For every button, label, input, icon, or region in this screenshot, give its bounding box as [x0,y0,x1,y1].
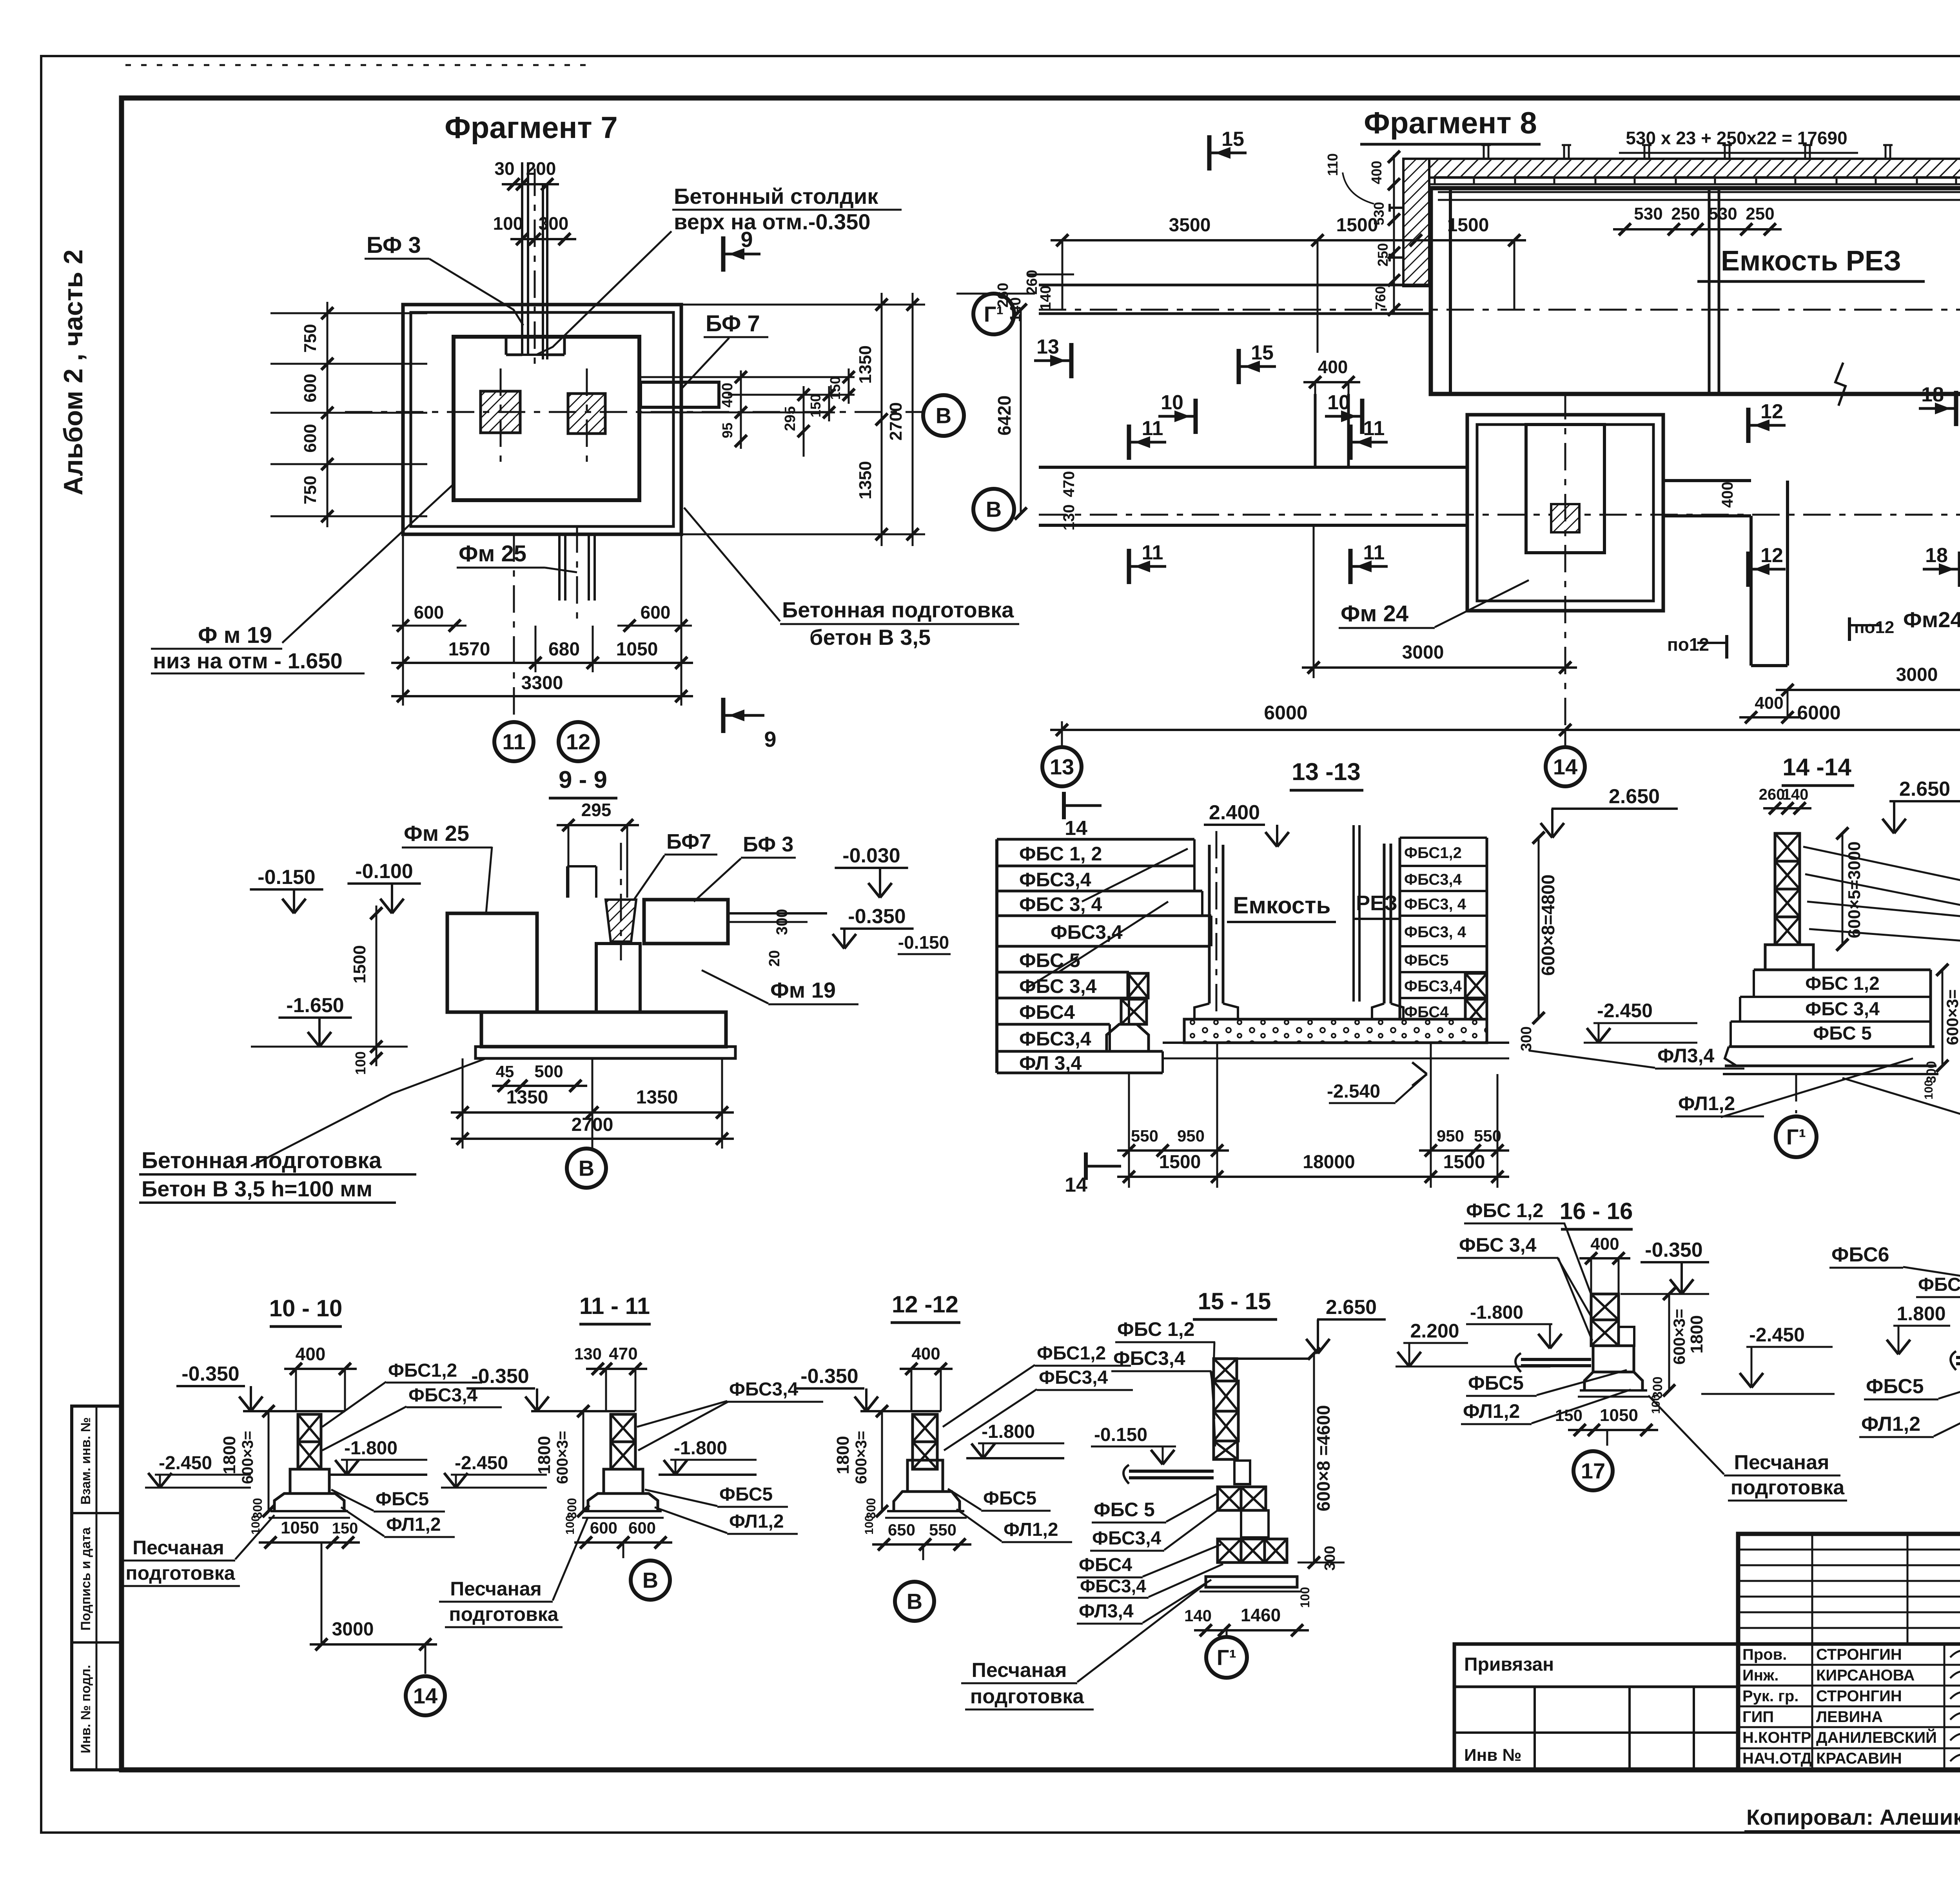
svg-text:250: 250 [1375,243,1391,267]
svg-text:ФБС3, 4: ФБС3, 4 [1404,896,1466,913]
svg-text:ФБС 1,2: ФБС 1,2 [1805,973,1880,994]
fragment 7 column axes vertical [500,368,502,463]
section 9-9 centerline via beam [620,843,622,960]
svg-text:110: 110 [1325,153,1341,176]
fragment 8 channel plates [1435,177,1474,184]
section 10-10 dim 3000 [310,1643,437,1646]
section 15-15 axis bubble G1 [1226,1630,1228,1635]
svg-text:140: 140 [1038,285,1054,310]
svg-text:-0.030: -0.030 [842,844,900,867]
svg-text:400: 400 [1590,1234,1619,1254]
svg-text:Копировал: Алешикова: Копировал: Алешикова [1746,1805,1960,1829]
fragment 7 axis B horizontal centerline [345,411,925,413]
svg-text:650: 650 [888,1521,915,1539]
svg-text:-0.150: -0.150 [898,932,949,953]
svg-text:-2.450: -2.450 [455,1453,508,1474]
section 13-13 right tank wall [1383,844,1386,1004]
svg-text:ФБС 1,2: ФБС 1,2 [1466,1200,1543,1221]
section 9-9 dim 45/500 [492,1085,587,1087]
section 9-9 axis bubble V [592,1139,593,1147]
fragment 8 dim 3000 left [1302,666,1577,669]
fragment 8 left footing strip [1039,466,1467,469]
svg-text:ФБС3,4: ФБС3,4 [1404,871,1462,888]
section 10-10 axis bubble 14 [425,1644,426,1674]
svg-text:400: 400 [1755,693,1783,713]
section 9-9 dim 295 [557,824,639,826]
svg-text:ФБС3,4: ФБС3,4 [1918,1274,1960,1295]
section 9-9 base strip [475,1047,735,1058]
svg-text:95: 95 [719,423,735,438]
svg-text:бетон В 3,5: бетон В 3,5 [809,625,931,650]
svg-text:11 - 11: 11 - 11 [579,1293,650,1319]
svg-text:600×3=: 600×3= [853,1431,870,1484]
section 13-13 dims 950 550 right [1419,1149,1509,1152]
svg-text:ФБС 5: ФБС 5 [1094,1499,1155,1521]
svg-text:750: 750 [301,324,320,352]
fragment 8 left wall band [1039,284,1430,287]
svg-text:550: 550 [929,1521,956,1539]
svg-text:по12: по12 [1667,634,1709,655]
section 16-16 dim 400 [1579,1257,1630,1259]
svg-text:-0.100: -0.100 [355,860,413,883]
fragment 8 axis V centerline [1039,514,1960,516]
svg-text:Емкость РЕЗ: Емкость РЕЗ [1721,245,1901,277]
svg-text:ФБС3,4: ФБС3,4 [1051,921,1123,943]
title block privyazan box [1454,1644,1738,1770]
svg-text:3000: 3000 [332,1619,374,1640]
svg-text:18: 18 [1921,383,1944,406]
svg-text:1500: 1500 [1336,215,1378,236]
svg-text:Г¹: Г¹ [1217,1645,1236,1670]
svg-text:150: 150 [827,376,843,400]
svg-text:250: 250 [1746,204,1774,223]
svg-text:-0.350: -0.350 [848,905,906,928]
svg-text:550: 550 [1131,1127,1158,1145]
svg-text:1460: 1460 [1241,1605,1281,1625]
section 11-11 dim 600x3 rotated [583,1411,584,1511]
section 13-13 partition wall [1352,825,1355,1002]
svg-text:ФБС3,4: ФБС3,4 [1080,1576,1146,1596]
svg-text:600×3=: 600×3= [239,1431,256,1484]
svg-text:530: 530 [1708,204,1737,223]
svg-text:ФБС 3,4: ФБС 3,4 [1459,1234,1537,1256]
svg-text:500: 500 [534,1062,563,1081]
svg-text:ФБС 5: ФБС 5 [1813,1023,1872,1044]
svg-text:ФБС6: ФБС6 [1831,1243,1889,1266]
fragment 7 left dim chain 750/600/600/750 [327,302,328,527]
svg-text:300: 300 [1322,1546,1338,1570]
fragment 8 tank outline [1431,188,1960,394]
section 13-13 right block stack [1399,838,1401,1024]
svg-text:Фрагмент 7: Фрагмент 7 [445,110,618,145]
section 15-15 dims 140 1460 [1194,1629,1309,1631]
section 14-14 footing base [1725,1047,1737,1066]
svg-text:ФБС 1,2: ФБС 1,2 [1117,1318,1194,1340]
fragment 8 axis 14 vertical centerline [1564,392,1566,745]
svg-text:16 - 16: 16 - 16 [1560,1198,1633,1224]
section 13-13 dims 1500 18000 1500 [1117,1176,1509,1178]
fragment 8 connector strip right of FM24 no.1 [1663,479,1751,482]
svg-text:14: 14 [1065,817,1087,840]
svg-text:2700: 2700 [572,1114,613,1135]
section 13-13 flag 14 bottom [1084,1152,1088,1180]
svg-text:ФБС3,4: ФБС3,4 [1404,978,1462,995]
fragment 8 plate anchors [1483,145,1485,159]
svg-text:БФ 3: БФ 3 [743,833,793,856]
title block outer [1738,1534,1960,1770]
fragment 8 bottom dim line 6000 6000 6000x2 [1050,729,1960,731]
svg-text:100: 100 [352,1051,368,1075]
svg-text:15: 15 [1221,128,1244,151]
svg-text:600×8=4800: 600×8=4800 [1538,875,1558,976]
section 15-15 floor slab left [1129,1470,1214,1473]
svg-text:3500: 3500 [1169,215,1211,236]
section 10-10 dim 400 [284,1368,357,1370]
fragment 7 dim 6420 vertical [1020,310,1022,514]
svg-text:100: 100 [493,213,523,234]
svg-text:БФ 7: БФ 7 [706,311,760,336]
section 14-14 dims 260 140 [1763,807,1811,809]
section 12-12 rot dim 1800 [881,1411,883,1511]
svg-text:300: 300 [539,213,569,234]
svg-text:ФЛ1,2: ФЛ1,2 [729,1511,784,1532]
svg-text:295: 295 [581,800,612,820]
svg-text:Инж.: Инж. [1742,1667,1779,1684]
svg-text:по12: по12 [1854,618,1894,637]
section 13-13 left block stack [995,839,998,1073]
svg-text:13: 13 [1036,336,1059,358]
svg-text:ФЛ1,2: ФЛ1,2 [1861,1413,1920,1435]
svg-text:1.800: 1.800 [1896,1303,1945,1325]
svg-text:18000: 18000 [1303,1152,1355,1172]
svg-text:600: 600 [628,1519,656,1537]
svg-text:10 - 10: 10 - 10 [269,1295,343,1321]
svg-text:100: 100 [863,1515,876,1535]
svg-text:1500: 1500 [350,945,369,984]
svg-text:400: 400 [296,1344,326,1364]
fragment 7 dim 30/200 top [502,183,559,185]
svg-text:подготовка: подготовка [1731,1476,1845,1499]
svg-text:Песчаная: Песчаная [450,1578,542,1600]
section 10-10 dim 600x3=1800 rotated [268,1411,270,1511]
fragment 8 left corner hatched detail [1403,159,1429,286]
section 11-11 axis bubble V [622,1543,624,1558]
svg-text:530 x 23 + 250x22 = 17690: 530 x 23 + 250x22 = 17690 [1626,128,1847,148]
section 14-14 intermediate block [1765,945,1813,970]
svg-text:ФБС4: ФБС4 [1019,1001,1075,1023]
svg-text:верх на отм.-0.350: верх на отм.-0.350 [674,209,871,234]
svg-text:140: 140 [1007,297,1024,322]
svg-text:130: 130 [574,1345,602,1363]
svg-text:600×8 =4600: 600×8 =4600 [1313,1405,1334,1511]
fragment 7 BF7 stub right [641,382,719,407]
svg-text:680: 680 [548,639,580,660]
svg-text:ФБС1,2: ФБС1,2 [1404,844,1462,862]
svg-text:470: 470 [1060,471,1078,497]
svg-text:низ на отм - 1.650: низ на отм - 1.650 [153,648,343,673]
svg-text:-1.800: -1.800 [1470,1302,1523,1323]
left margin stamp column [72,1406,122,1770]
svg-text:1050: 1050 [616,639,658,660]
svg-text:200: 200 [526,158,556,179]
svg-text:подготовка: подготовка [970,1685,1084,1708]
svg-text:ФЛ3,4: ФЛ3,4 [1657,1045,1715,1067]
svg-text:100: 100 [1922,1080,1935,1100]
section 11-11 dims 130 470 [586,1368,647,1370]
svg-text:2.200: 2.200 [1410,1320,1459,1342]
section 15-15 X row 2 [1218,1539,1241,1562]
fragment 7 riser notch in FM19 [505,337,508,355]
svg-text:ФБС1,2: ФБС1,2 [1037,1343,1106,1364]
svg-text:150: 150 [332,1520,358,1537]
svg-text:Бетонный столдик: Бетонный столдик [674,184,878,209]
section 12-12 pedestal and footing [907,1460,943,1492]
svg-text:12: 12 [566,730,590,754]
svg-text:ФБС 3,4: ФБС 3,4 [1805,999,1880,1020]
section 13-13 tank left wall [1208,845,1211,1004]
fragment 8 break marks on tank bottom [1835,363,1846,406]
section 15-15 dim 600x8 rotated [1313,1354,1315,1562]
section 15-15 base slab [1206,1577,1297,1587]
fragment 8 top hatched strip [1411,159,1960,178]
fragment 8 corner rotated dims [1393,155,1395,314]
svg-text:-0.150: -0.150 [258,866,315,889]
svg-text:ФЛ1,2: ФЛ1,2 [1463,1400,1520,1422]
section 14-14 lower stack [1754,969,1931,971]
svg-text:3300: 3300 [521,673,563,693]
svg-text:ФБС3,4: ФБС3,4 [729,1379,799,1400]
fragment 8 axis G1 centerline [1039,309,1960,311]
svg-text:600: 600 [590,1519,617,1537]
svg-text:400: 400 [1368,161,1385,184]
svg-text:-0.350: -0.350 [800,1365,858,1388]
svg-text:1800: 1800 [535,1436,554,1474]
svg-text:Фм 19: Фм 19 [770,978,836,1002]
svg-text:13 -13: 13 -13 [1292,759,1361,786]
svg-text:530: 530 [1634,204,1662,223]
svg-text:150: 150 [1555,1406,1583,1425]
scan noise dotted line top [125,64,596,66]
svg-text:2700: 2700 [886,402,906,441]
svg-text:ФБС3,4: ФБС3,4 [1039,1367,1108,1388]
fragment 8 FM24 no.1 column hatched [1551,504,1579,532]
svg-text:БФ 3: БФ 3 [367,232,421,258]
svg-text:ФЛ 3,4: ФЛ 3,4 [1019,1052,1082,1074]
svg-text:ФБС3,4: ФБС3,4 [1113,1347,1185,1369]
svg-text:17: 17 [1581,1459,1605,1483]
svg-text:2.650: 2.650 [1899,778,1950,800]
svg-text:Фрагмент 8: Фрагмент 8 [1364,105,1537,140]
fragment 8 dim 400 at stub [1303,381,1360,383]
svg-text:КРАСАВИН: КРАСАВИН [1816,1750,1902,1767]
svg-text:Фм 24: Фм 24 [1341,601,1408,626]
svg-text:Г¹: Г¹ [1786,1125,1806,1149]
svg-text:14 -14: 14 -14 [1782,754,1851,781]
svg-text:400: 400 [1318,357,1348,377]
section 17-17 floor slab [1956,1356,1960,1359]
svg-text:1500: 1500 [1443,1152,1485,1172]
svg-text:2.650: 2.650 [1609,785,1660,808]
svg-text:-2.450: -2.450 [1749,1324,1805,1346]
svg-text:Рук. гр.: Рук. гр. [1742,1688,1798,1705]
fragment 8 left dim chain 3500/1500/1500 [1051,239,1526,241]
svg-text:600: 600 [641,602,671,622]
svg-text:ФБС 1, 2: ФБС 1, 2 [1019,843,1102,865]
svg-text:ФЛ1,2: ФЛ1,2 [1004,1519,1058,1540]
svg-text:250: 250 [1671,204,1700,223]
section 9-9 FM25 block [447,913,537,1012]
svg-text:1500: 1500 [1159,1152,1201,1172]
section 10-10 pedestal and footing [290,1469,329,1494]
svg-text:6000: 6000 [1264,702,1307,724]
svg-text:ЛЕВИНА: ЛЕВИНА [1816,1708,1883,1726]
section 16-16 axis bubble 17 [1606,1430,1608,1446]
svg-text:ДАНИЛЕВСКИЙ: ДАНИЛЕВСКИЙ [1816,1728,1937,1746]
svg-text:600×3=: 600×3= [1670,1309,1688,1365]
fragment 7 axis bubble 12 [559,722,598,761]
svg-text:12 -12: 12 -12 [892,1291,958,1317]
svg-text:11: 11 [1142,541,1163,564]
svg-text:ФБС5: ФБС5 [1866,1375,1924,1398]
section 11-11 X column [611,1414,635,1442]
svg-text:1800: 1800 [833,1436,853,1474]
fragment 8 FM24 no.1 outer [1467,415,1663,611]
svg-text:-0.350: -0.350 [181,1363,239,1385]
fragment 8 leg down [1749,516,1753,666]
svg-text:600: 600 [301,374,320,402]
section 13-13 dims 550 950 left [1117,1149,1229,1152]
svg-text:СТРОНГИН: СТРОНГИН [1816,1688,1902,1705]
svg-text:-2.450: -2.450 [1597,1000,1653,1022]
svg-text:Подпись и дата: Подпись и дата [78,1527,93,1631]
svg-text:БФ7: БФ7 [666,830,711,853]
svg-text:260: 260 [1759,786,1785,803]
svg-text:600: 600 [414,602,444,622]
fragment 8 FM24 no.1 pedestal [1526,425,1604,553]
section 10-10 X column [298,1414,321,1442]
svg-text:20: 20 [766,950,783,967]
svg-text:18: 18 [1925,544,1948,567]
section 13-13 dim 600x8=4800 rotated [1538,838,1540,1018]
svg-text:300: 300 [1518,1026,1535,1051]
section 16-16 dims 150 1050 [1568,1429,1658,1431]
fragment 8 section flags 12 18 [1746,408,1751,443]
section 12-12 X column [913,1414,937,1442]
svg-text:-1.650: -1.650 [286,994,344,1017]
svg-text:6420: 6420 [994,396,1014,436]
svg-text:1570: 1570 [448,639,490,660]
svg-text:Ф м 19: Ф м 19 [198,622,272,648]
svg-text:Пров.: Пров. [1742,1646,1787,1663]
fragment 7 axis bubble V mid [923,395,964,436]
svg-text:950: 950 [1437,1127,1464,1145]
svg-text:КИРСАНОВА: КИРСАНОВА [1816,1667,1915,1684]
svg-text:14: 14 [1553,755,1577,779]
section 14-14 X column [1775,833,1800,861]
svg-text:1350: 1350 [636,1087,678,1108]
svg-text:3000: 3000 [1402,642,1444,663]
svg-text:подготовка: подготовка [125,1562,235,1584]
svg-text:760: 760 [1372,286,1388,310]
section 9-9 footing [481,1012,726,1047]
svg-text:Песчаная: Песчаная [1734,1451,1829,1474]
svg-text:150: 150 [808,394,824,417]
svg-text:Привязан: Привязан [1464,1654,1554,1675]
section 10-10 dims 1050 150 [259,1541,360,1544]
svg-text:-0.350: -0.350 [1645,1239,1702,1261]
svg-text:600×3=: 600×3= [554,1431,571,1484]
title block signature rows [1738,1664,1960,1666]
svg-text:ФЛ3,4: ФЛ3,4 [1079,1601,1134,1622]
svg-text:9: 9 [740,227,753,252]
fragment 7 axis bubble V low [973,489,1014,530]
svg-text:9 - 9: 9 - 9 [559,766,607,793]
svg-text:3000: 3000 [1896,664,1938,685]
svg-text:400: 400 [1719,482,1736,508]
fragment 8 tank left inner wall [1449,188,1452,394]
fragment 7 trench below [558,534,561,601]
svg-text:ФБС5: ФБС5 [376,1489,429,1510]
section 13-13 left stack diagonal leaders [1082,849,1188,902]
svg-text:1500: 1500 [1447,215,1489,236]
fragment 8 section flags 15 13 10 11 [1207,135,1212,171]
section 11-11 pedestal and footing [604,1469,643,1494]
svg-text:ФБС5: ФБС5 [1468,1372,1524,1394]
fragment 8 tank rim line [1438,191,1960,193]
section 16-16 floor slab [1521,1358,1591,1361]
svg-text:ФБС3,4: ФБС3,4 [1019,1028,1091,1050]
svg-text:600×3=: 600×3= [1943,989,1960,1045]
fragment 8 dim 530/250/530/250 [1613,228,1782,230]
section 12-12 dims 650 550 [872,1543,971,1546]
section 15-15 step block [1241,1510,1269,1537]
svg-text:15 - 15: 15 - 15 [1198,1288,1271,1314]
svg-text:1050: 1050 [1600,1406,1638,1425]
svg-text:14: 14 [1065,1174,1087,1196]
svg-text:950: 950 [1177,1127,1205,1145]
svg-text:1350: 1350 [856,461,875,499]
section 16-16 dim 600x3 rotated [1668,1294,1670,1390]
svg-text:130: 130 [1060,504,1078,531]
section 16-16 pedestal and footing [1593,1346,1634,1372]
section 15-15 X column [1215,1357,1309,1360]
svg-text:Взам. инв. №: Взам. инв. № [78,1417,93,1504]
fragment 8 axis bubbles 13 14 15 17 [1061,721,1063,747]
section 14-14 axis bubble G1 [1795,1074,1797,1113]
section 13-13 flag 14 top [1062,792,1066,819]
section 16-16 step block [1619,1327,1634,1346]
svg-text:Инв №: Инв № [1464,1746,1522,1765]
fragment 7 column 1 hatched [481,391,520,433]
section 9-9 dim 1350 1350 [451,1111,734,1114]
svg-text:В: В [907,1589,922,1614]
fragment 7 FM19 foundation rect [454,337,639,500]
section 9-9 BF7 hatched wedge [606,900,636,942]
fragment 7 column 2 hatched [568,394,605,434]
svg-text:100: 100 [1298,1587,1312,1608]
svg-text:13: 13 [1050,755,1074,779]
svg-text:Бетонная подготовка: Бетонная подготовка [782,597,1014,622]
section 13-13 left footing trapezoid [1107,1024,1149,1051]
svg-text:45: 45 [496,1062,514,1081]
svg-text:-1.800: -1.800 [674,1438,727,1459]
svg-text:Н.КОНТР: Н.КОНТР [1742,1729,1811,1746]
fragment 7 dim 100/300 [510,238,576,240]
section 15-15 plain block [1234,1461,1250,1484]
svg-text:ГИП: ГИП [1742,1708,1774,1726]
fragment 7 BF3 riser lines [521,162,523,355]
fragment 7 right dim chain 1350/1350 [881,293,883,546]
